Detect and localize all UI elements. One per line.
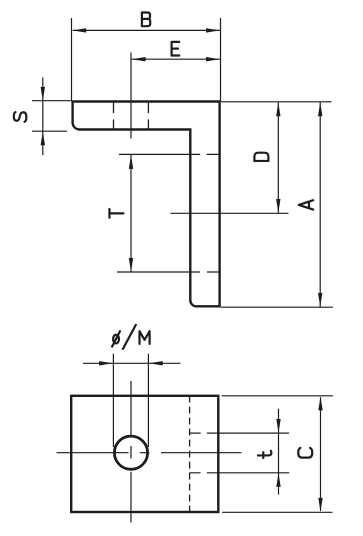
arrow C bottom xyxy=(318,498,322,512)
bottom view rectangle xyxy=(71,396,218,512)
dimension C bottom extension line xyxy=(222,511,333,513)
arrow S top xyxy=(41,87,45,101)
bottom right extension line (leg bottom) xyxy=(221,306,333,308)
flange hole hidden line left xyxy=(113,102,115,129)
arrow A top xyxy=(318,102,322,116)
arrow oM left xyxy=(99,361,113,365)
leg inner face hidden line xyxy=(189,396,191,512)
arrow E left xyxy=(132,57,146,61)
dimension oM line xyxy=(83,362,181,364)
dimension S top extension line xyxy=(32,100,72,102)
bottom view hole circle xyxy=(114,436,147,469)
dimension S line xyxy=(42,78,44,156)
top right extension line (top surface) xyxy=(221,101,332,103)
arrow B left xyxy=(72,28,86,32)
arrow D top xyxy=(276,102,280,116)
dimension D line xyxy=(277,103,279,213)
label B xyxy=(142,13,150,27)
hole horizontal centerline xyxy=(57,452,242,454)
flange hole hidden line right xyxy=(147,102,149,129)
dimension B line xyxy=(73,29,220,31)
arrow D bottom xyxy=(276,199,280,213)
arrow t bottom xyxy=(276,473,280,487)
hole vertical centerline xyxy=(130,381,132,523)
arrow T bottom xyxy=(129,258,133,272)
dimension t line xyxy=(278,409,280,495)
arrow C top xyxy=(318,396,322,410)
label C xyxy=(298,448,312,458)
label M of oM xyxy=(140,331,150,344)
arrow A bottom xyxy=(318,293,322,307)
label E xyxy=(172,42,180,56)
dimension E line xyxy=(132,58,220,60)
bracket profile outline (side view of angle bracket) xyxy=(73,102,220,307)
dimension C line xyxy=(320,397,322,511)
label D xyxy=(254,153,268,161)
label diameter sign of oM xyxy=(113,335,119,344)
label T xyxy=(109,209,123,218)
label t xyxy=(258,451,272,458)
dimension B left extension line xyxy=(71,18,73,101)
arrow E right xyxy=(206,57,220,61)
dimension oM left extension line xyxy=(112,354,114,447)
dimension B/E right extension line xyxy=(220,18,222,101)
dimension C top extension line xyxy=(222,395,334,397)
arrow T top xyxy=(129,155,133,169)
leg hole silhouette upper (t top extension) xyxy=(190,432,289,434)
label S xyxy=(14,112,27,122)
dimension D bottom extension line xyxy=(171,212,289,214)
dimension T line xyxy=(130,155,132,272)
dimension S bottom extension line xyxy=(32,130,67,132)
arrow S bottom xyxy=(41,131,45,145)
leg hole centerline lower xyxy=(117,271,219,273)
leg hole silhouette lower (t bottom extension) xyxy=(190,472,289,474)
arrow B right xyxy=(206,28,220,32)
label A xyxy=(299,200,314,209)
arrow t top xyxy=(276,419,280,433)
label slash of oM xyxy=(123,325,136,349)
leg hole centerline upper xyxy=(119,153,219,155)
dimension oM right extension line xyxy=(147,354,149,447)
flange hole centerline (E extension) xyxy=(130,53,132,139)
dimension A line xyxy=(319,103,321,307)
arrow oM right xyxy=(149,361,163,365)
